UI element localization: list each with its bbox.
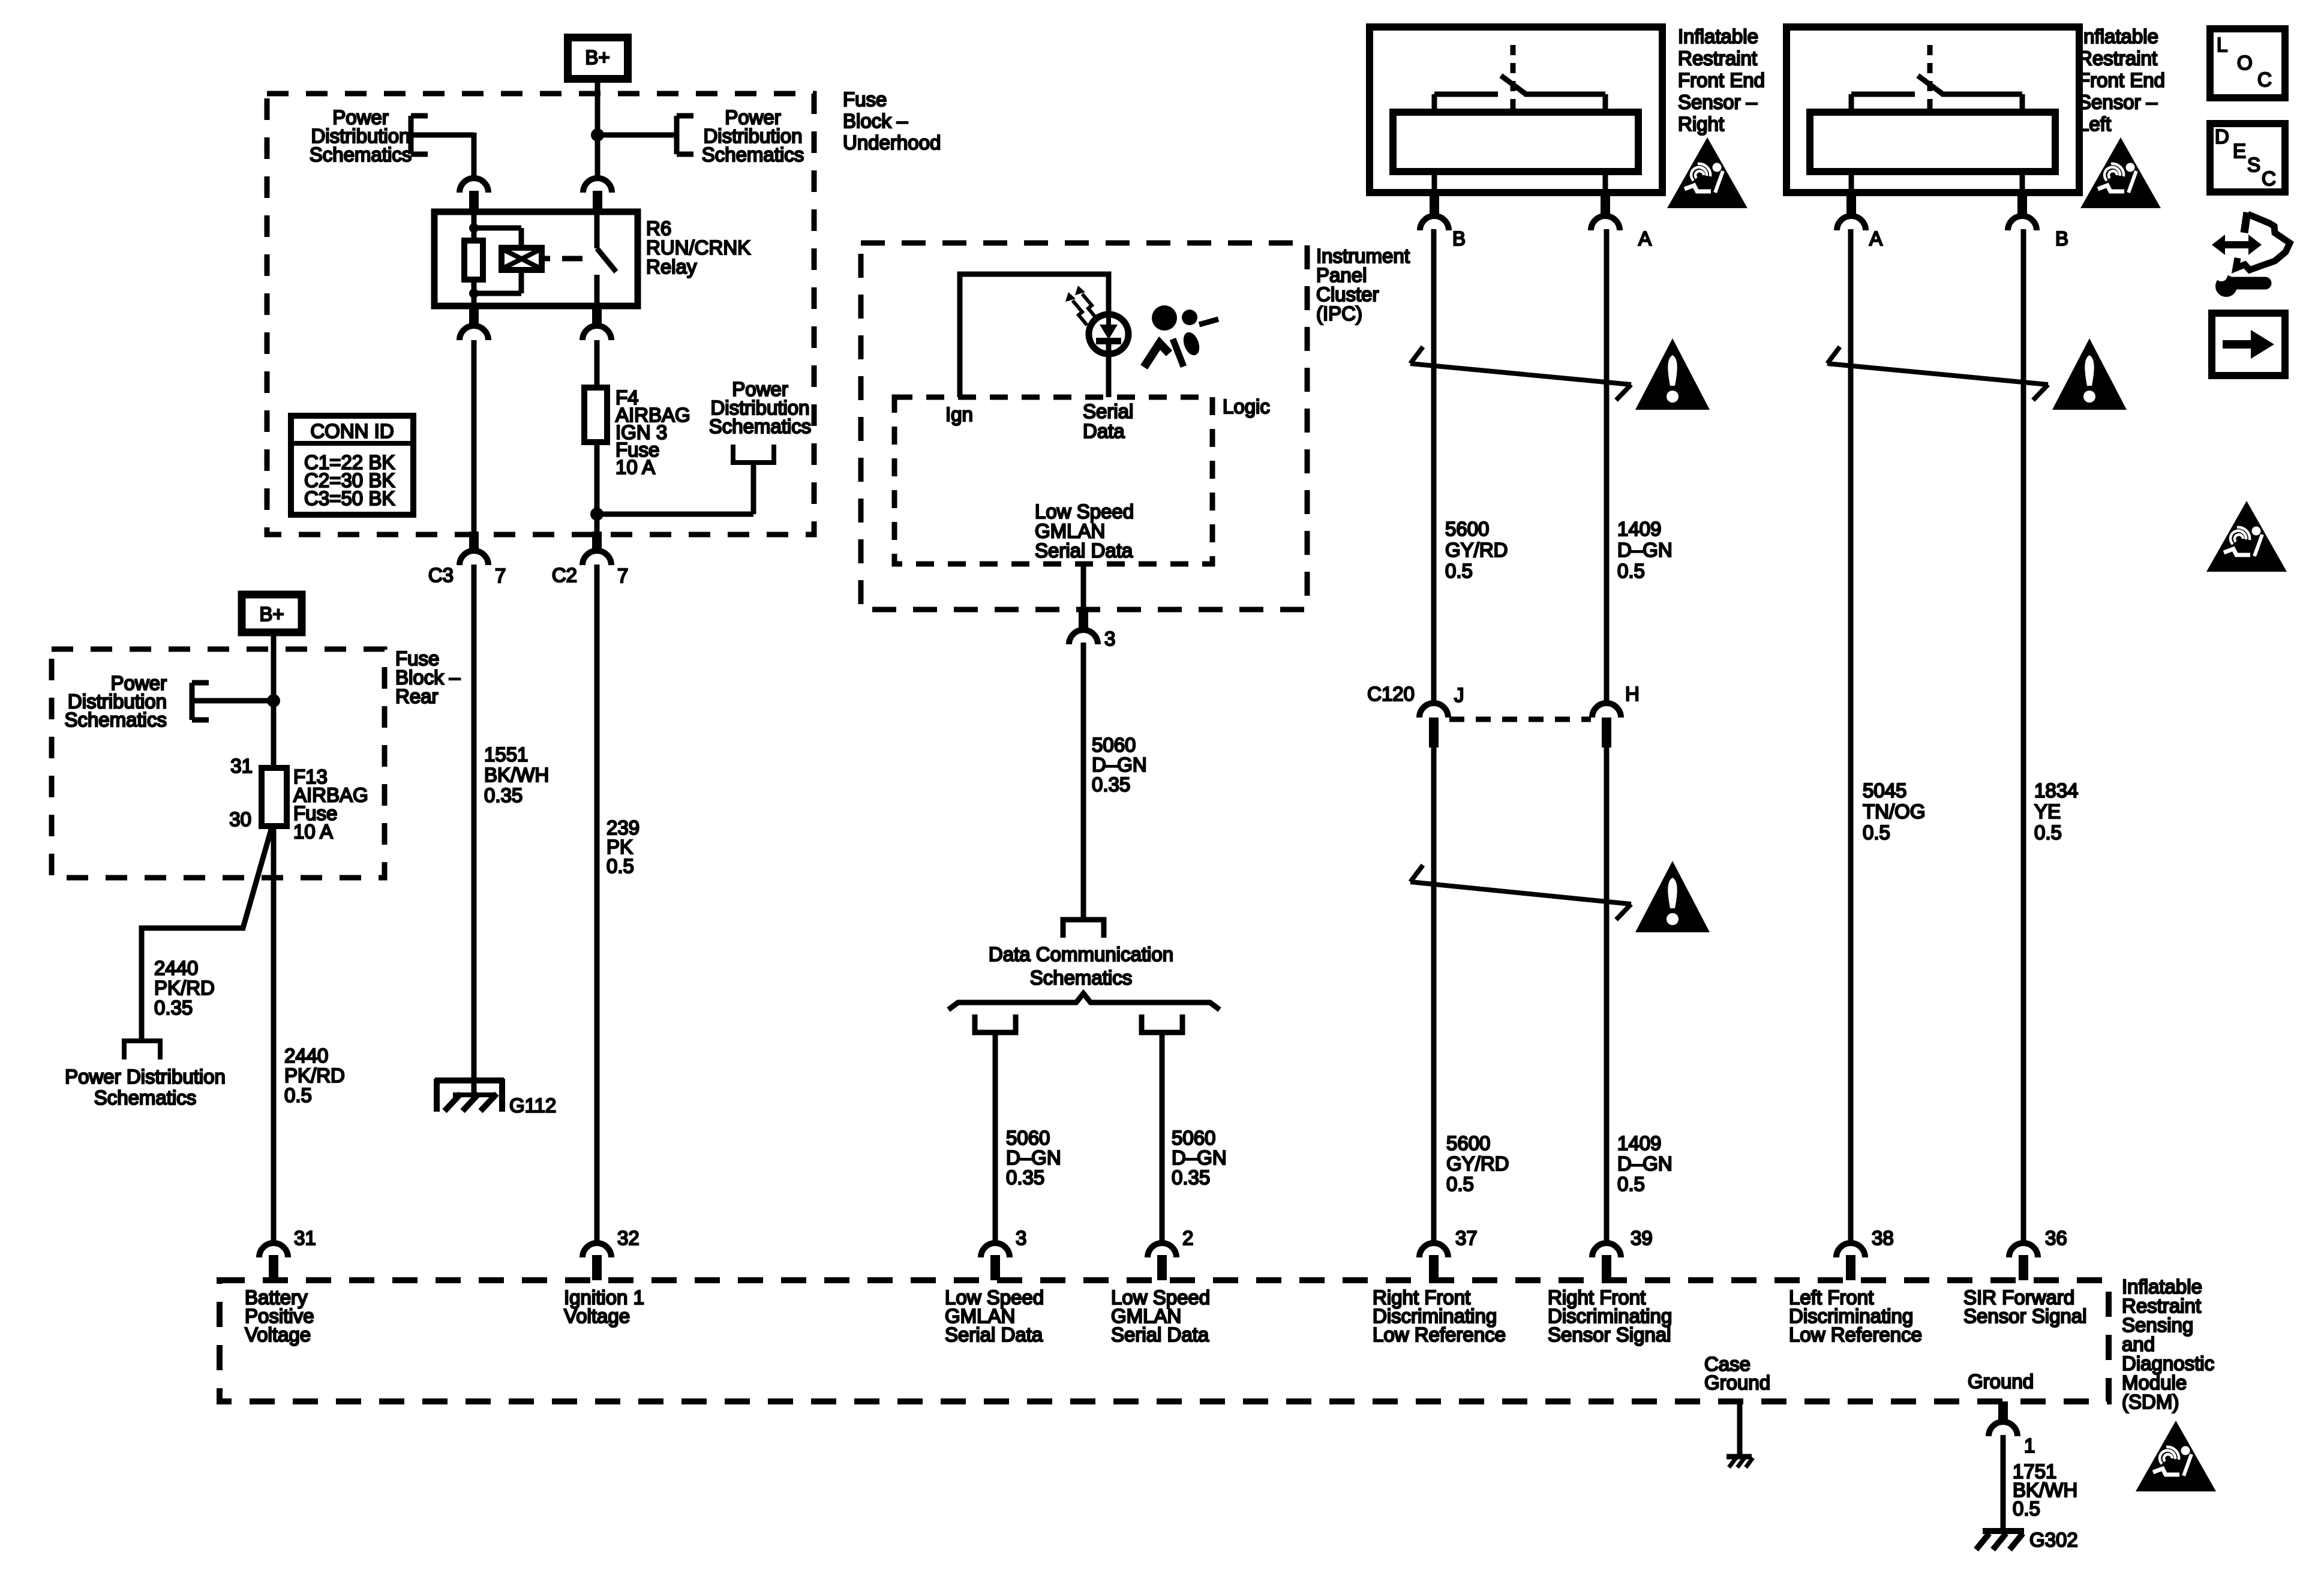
- svg-text:Right: Right: [1678, 113, 1724, 135]
- svg-text:O: O: [2237, 52, 2253, 74]
- svg-text:2: 2: [1182, 1227, 1193, 1249]
- svg-text:31: 31: [294, 1227, 316, 1249]
- svg-text:0.5: 0.5: [2013, 1497, 2040, 1520]
- svg-text:Voltage: Voltage: [245, 1323, 311, 1346]
- svg-text:2440: 2440: [284, 1044, 328, 1067]
- svg-text:Underhood: Underhood: [843, 131, 941, 154]
- svg-text:3: 3: [1104, 628, 1115, 650]
- svg-text:5060: 5060: [1006, 1127, 1050, 1149]
- svg-text:Sensor Signal: Sensor Signal: [1963, 1305, 2086, 1327]
- svg-text:5045: 5045: [1863, 779, 1906, 801]
- svg-text:30: 30: [229, 808, 251, 830]
- svg-text:32: 32: [617, 1227, 639, 1249]
- svg-text:37: 37: [1455, 1227, 1478, 1249]
- svg-text:Serial Data: Serial Data: [1111, 1323, 1209, 1346]
- svg-text:0.35: 0.35: [1006, 1166, 1044, 1188]
- svg-text:Schematics: Schematics: [64, 709, 167, 731]
- svg-text:0.35: 0.35: [1092, 773, 1130, 795]
- svg-text:0.35: 0.35: [1172, 1166, 1210, 1188]
- svg-text:Sensor Signal: Sensor Signal: [1548, 1323, 1671, 1346]
- svg-text:B: B: [1452, 227, 1466, 250]
- svg-text:C120: C120: [1367, 683, 1415, 705]
- svg-text:Low Reference: Low Reference: [1789, 1323, 1922, 1346]
- svg-text:Serial Data: Serial Data: [945, 1323, 1043, 1346]
- svg-text:Relay: Relay: [646, 256, 697, 278]
- svg-text:TN/OG: TN/OG: [1863, 800, 1926, 822]
- svg-text:D–GN: D–GN: [1617, 1152, 1673, 1175]
- svg-text:H: H: [1625, 683, 1640, 705]
- svg-text:1409: 1409: [1617, 1132, 1661, 1154]
- svg-text:Front End: Front End: [2078, 69, 2165, 91]
- svg-text:GMLAN: GMLAN: [1035, 520, 1105, 542]
- svg-text:D–GN: D–GN: [1006, 1146, 1061, 1169]
- svg-text:Restraint: Restraint: [1678, 47, 1757, 70]
- svg-text:0.5: 0.5: [2034, 821, 2062, 843]
- svg-text:A: A: [1638, 227, 1652, 250]
- svg-text:Schematics: Schematics: [310, 143, 412, 166]
- svg-text:B+: B+: [585, 46, 609, 68]
- svg-text:J: J: [1454, 684, 1464, 706]
- svg-text:31: 31: [230, 755, 253, 777]
- svg-text:C: C: [2262, 167, 2276, 190]
- svg-text:Left: Left: [2078, 113, 2111, 135]
- svg-text:5600: 5600: [1445, 518, 1489, 540]
- svg-text:1409: 1409: [1617, 518, 1661, 540]
- svg-text:0.5: 0.5: [284, 1084, 312, 1106]
- svg-text:0.5: 0.5: [606, 855, 634, 877]
- svg-text:1551: 1551: [484, 743, 528, 766]
- svg-text:36: 36: [2045, 1227, 2067, 1249]
- svg-text:Fuse: Fuse: [843, 88, 887, 110]
- svg-text:L: L: [2217, 34, 2227, 56]
- svg-text:0.35: 0.35: [484, 784, 523, 806]
- svg-text:G112: G112: [509, 1094, 556, 1116]
- svg-text:Schematics: Schematics: [702, 143, 804, 166]
- svg-text:0.5: 0.5: [1445, 560, 1473, 582]
- svg-text:Front End: Front End: [1678, 69, 1765, 91]
- svg-text:10 A: 10 A: [615, 456, 655, 478]
- svg-text:E: E: [2233, 140, 2246, 162]
- svg-text:Schematics: Schematics: [94, 1086, 197, 1109]
- svg-text:Sensor –: Sensor –: [2078, 91, 2158, 113]
- svg-text:C: C: [2257, 68, 2272, 91]
- svg-text:Inflatable: Inflatable: [2078, 25, 2158, 47]
- svg-text:1834: 1834: [2034, 779, 2078, 801]
- svg-text:Logic: Logic: [1223, 395, 1270, 418]
- svg-text:D–GN: D–GN: [1172, 1146, 1227, 1169]
- svg-text:GY/RD: GY/RD: [1446, 1152, 1509, 1175]
- svg-text:0.5: 0.5: [1617, 1173, 1645, 1195]
- svg-text:Ground: Ground: [1968, 1370, 2034, 1392]
- svg-text:38: 38: [1872, 1227, 1894, 1249]
- svg-text:Inflatable: Inflatable: [1678, 25, 1758, 47]
- svg-text:39: 39: [1631, 1227, 1653, 1249]
- svg-text:GY/RD: GY/RD: [1445, 539, 1508, 561]
- svg-text:(IPC): (IPC): [1316, 302, 1362, 325]
- svg-text:5600: 5600: [1446, 1132, 1490, 1154]
- svg-text:Low Reference: Low Reference: [1373, 1323, 1506, 1346]
- svg-text:C3=50 BK: C3=50 BK: [304, 487, 395, 509]
- svg-text:Power Distribution: Power Distribution: [65, 1065, 226, 1088]
- svg-text:Rear: Rear: [395, 685, 439, 707]
- svg-text:D–GN: D–GN: [1617, 539, 1673, 561]
- svg-text:Serial: Serial: [1083, 400, 1133, 422]
- svg-text:Restraint: Restraint: [2078, 47, 2157, 70]
- svg-text:Schematics: Schematics: [1030, 966, 1133, 989]
- svg-text:Sensor –: Sensor –: [1678, 91, 1758, 113]
- svg-text:0.35: 0.35: [154, 996, 193, 1019]
- svg-text:(SDM): (SDM): [2122, 1391, 2179, 1413]
- svg-text:YE: YE: [2034, 800, 2061, 822]
- svg-text:0.5: 0.5: [1617, 560, 1645, 582]
- svg-text:7: 7: [617, 565, 628, 587]
- svg-text:0.5: 0.5: [1446, 1173, 1474, 1195]
- svg-text:Data Communication: Data Communication: [989, 943, 1173, 965]
- svg-text:5060: 5060: [1172, 1127, 1215, 1149]
- svg-text:Schematics: Schematics: [709, 415, 812, 437]
- svg-text:10 A: 10 A: [293, 821, 333, 843]
- svg-text:Low Speed: Low Speed: [1035, 500, 1134, 523]
- svg-text:2440: 2440: [154, 957, 198, 979]
- svg-text:Ign: Ign: [945, 403, 973, 425]
- svg-text:BK/WH: BK/WH: [484, 764, 549, 786]
- svg-text:C2: C2: [552, 564, 577, 586]
- svg-text:B: B: [2055, 227, 2068, 250]
- svg-text:PK/RD: PK/RD: [154, 977, 215, 999]
- svg-text:B+: B+: [259, 603, 284, 625]
- svg-text:CONN ID: CONN ID: [310, 420, 394, 442]
- svg-text:Data: Data: [1083, 420, 1125, 442]
- svg-text:D–GN: D–GN: [1092, 754, 1147, 776]
- svg-text:0.5: 0.5: [1863, 821, 1890, 843]
- svg-text:Voltage: Voltage: [564, 1305, 630, 1327]
- svg-text:Ground: Ground: [1704, 1371, 1770, 1394]
- svg-text:D: D: [2215, 125, 2229, 148]
- svg-text:G302: G302: [2029, 1529, 2078, 1551]
- svg-text:A: A: [1869, 227, 1882, 250]
- svg-text:Block –: Block –: [843, 110, 908, 132]
- svg-text:3: 3: [1016, 1227, 1026, 1249]
- svg-text:C3: C3: [428, 564, 454, 586]
- svg-text:Serial Data: Serial Data: [1035, 539, 1133, 562]
- svg-text:PK/RD: PK/RD: [284, 1064, 345, 1086]
- svg-text:5060: 5060: [1092, 734, 1136, 756]
- svg-text:7: 7: [495, 565, 506, 587]
- svg-text:S: S: [2247, 154, 2260, 176]
- svg-text:1: 1: [2024, 1434, 2035, 1457]
